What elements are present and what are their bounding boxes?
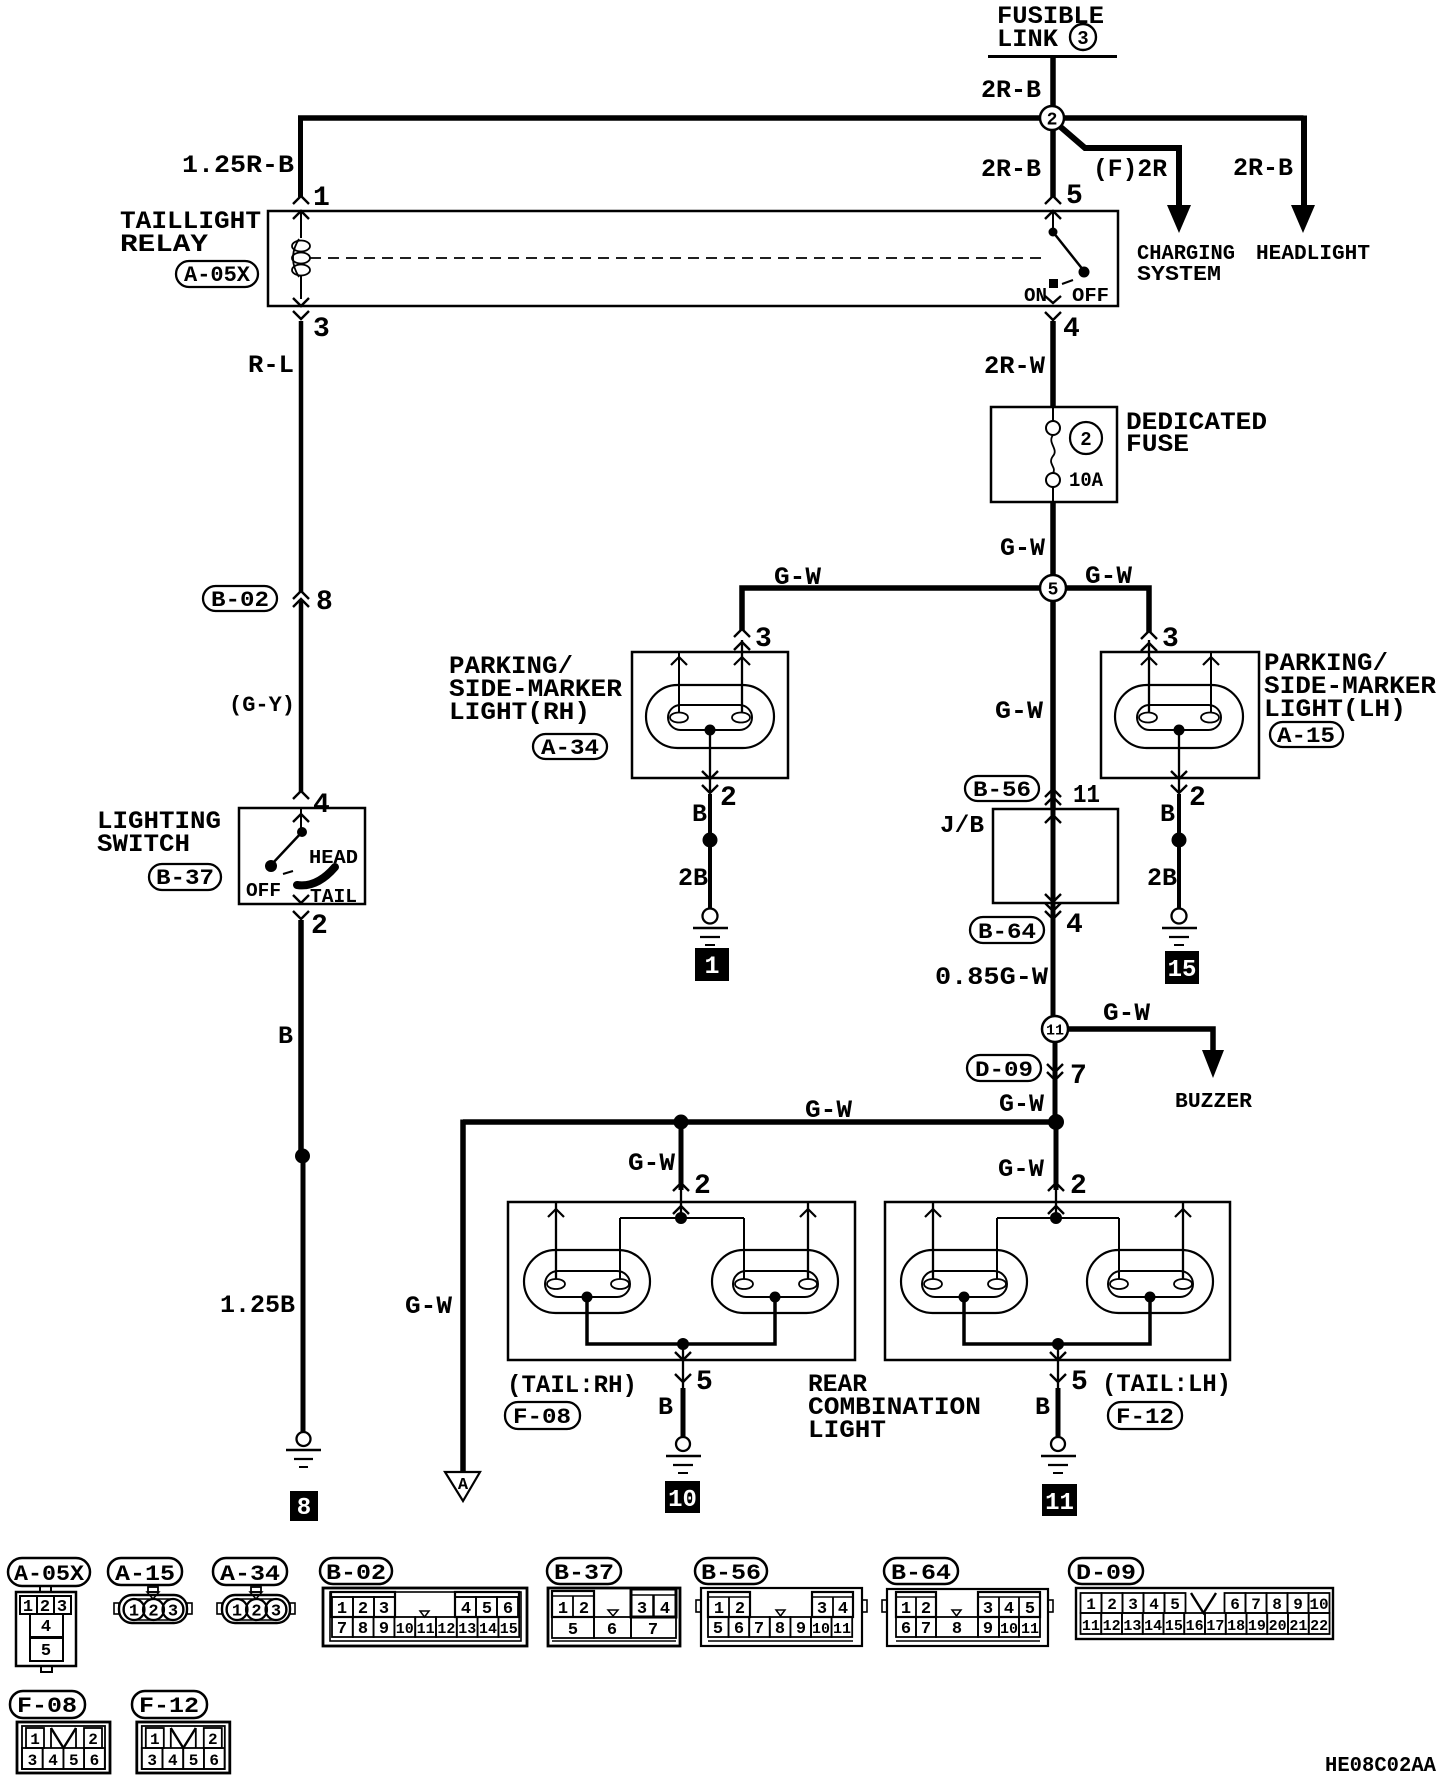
svg-text:4: 4	[1063, 314, 1080, 345]
rear LH bulb 2	[1087, 1250, 1213, 1313]
svg-text:OFF: OFF	[1072, 285, 1109, 307]
wire G-W fuse to node 5	[1050, 502, 1056, 576]
rear RH pin 2 chevrons	[673, 1183, 689, 1191]
svg-text:2B: 2B	[678, 864, 708, 893]
svg-text:6: 6	[1230, 1596, 1240, 1614]
svg-text:2: 2	[251, 1603, 261, 1622]
svg-text:FUSE: FUSE	[1126, 430, 1189, 459]
wire node2 to relay pin 5	[1050, 130, 1056, 197]
lighting switch position text	[246, 847, 358, 908]
ground (LH parking)	[1172, 909, 1187, 924]
pin 4 chevrons (lighting switch)	[293, 791, 309, 799]
wire relay pin3 down	[299, 321, 304, 592]
svg-text:5: 5	[189, 1752, 199, 1770]
svg-text:6: 6	[90, 1752, 100, 1770]
svg-text:3: 3	[28, 1752, 38, 1770]
svg-text:CHARGING: CHARGING	[1137, 243, 1235, 266]
svg-text:D-09: D-09	[975, 1058, 1033, 1083]
connector tag A-34	[533, 734, 607, 759]
relay switch lead	[1052, 211, 1054, 229]
fusible link label	[997, 2, 1104, 54]
junction dot (LH parking ground)	[1172, 833, 1187, 848]
svg-text:2: 2	[1047, 111, 1058, 131]
RH parking pin 2 lead	[709, 735, 711, 792]
connector pinout F-08	[10, 1691, 110, 1773]
svg-text:3: 3	[1077, 28, 1088, 50]
svg-text:11: 11	[833, 1621, 851, 1638]
svg-text:A-15: A-15	[1277, 724, 1335, 749]
svg-text:G-W: G-W	[1103, 999, 1150, 1028]
wire (G-Y) segment	[299, 601, 304, 792]
svg-text:A-34: A-34	[220, 1562, 280, 1587]
ground (rear RH)	[676, 1437, 690, 1451]
pin 1 connector chevrons	[293, 196, 309, 204]
svg-text:3: 3	[271, 1603, 281, 1622]
svg-text:9: 9	[983, 1620, 993, 1639]
svg-text:2: 2	[1070, 1171, 1087, 1202]
bulb LH filament leads	[1148, 640, 1150, 712]
relay coil	[292, 241, 310, 252]
svg-text:1: 1	[150, 1731, 160, 1749]
svg-text:B: B	[1035, 1393, 1050, 1422]
svg-text:5: 5	[696, 1367, 713, 1398]
rear RH bulb 2	[712, 1250, 838, 1313]
svg-text:10: 10	[396, 1621, 414, 1638]
svg-text:LINK: LINK	[997, 25, 1058, 54]
junction dot rear RH tap	[674, 1115, 689, 1130]
svg-text:2R-W: 2R-W	[984, 352, 1045, 381]
svg-text:4: 4	[1066, 910, 1083, 941]
connector tag B-64 (inline)	[970, 917, 1044, 943]
svg-text:B: B	[1160, 800, 1175, 829]
rear LH internal wiring	[997, 1217, 1119, 1219]
connector pinout A-15	[108, 1558, 192, 1623]
rear RH bulb 2 outer lead	[807, 1202, 809, 1279]
svg-text:0.85G-W: 0.85G-W	[935, 963, 1048, 992]
svg-text:11: 11	[1082, 1618, 1100, 1635]
wire 0.85G-W	[1051, 920, 1056, 1017]
parking/side-marker light RH box	[632, 652, 788, 778]
node 5 junction	[1040, 575, 1066, 601]
svg-text:11: 11	[1046, 1023, 1064, 1040]
wire drop to rear LH pin 2	[1054, 1122, 1059, 1190]
svg-text:7: 7	[921, 1620, 931, 1639]
connector tag A-15	[1270, 722, 1343, 747]
rear RH ground bus	[587, 1302, 683, 1344]
svg-text:(TAIL:RH): (TAIL:RH)	[507, 1371, 637, 1400]
svg-text:3: 3	[1162, 624, 1179, 655]
wire main horizontal bus	[298, 115, 1304, 121]
wire top bus down to relay pin 1	[298, 116, 303, 198]
svg-text:12: 12	[1103, 1618, 1121, 1635]
connector pinout B-56 (bottom row)	[695, 1558, 867, 1646]
rear RH labels	[507, 1370, 981, 1445]
svg-text:7: 7	[1251, 1596, 1261, 1614]
svg-text:B-02: B-02	[211, 588, 269, 613]
wire charging system branch	[1056, 123, 1179, 206]
connector tag B-02 (inline)	[203, 586, 277, 611]
svg-text:G-W: G-W	[628, 1149, 675, 1178]
svg-text:16: 16	[1186, 1618, 1204, 1635]
svg-text:1.25R-B: 1.25R-B	[182, 151, 294, 180]
svg-text:10: 10	[812, 1621, 830, 1638]
svg-text:RELAY: RELAY	[120, 230, 208, 259]
svg-text:TAIL: TAIL	[310, 886, 357, 908]
relay switch contact	[1049, 228, 1058, 237]
rear LH ground bus	[964, 1302, 1058, 1344]
RH parking pin 3 chevrons	[734, 629, 750, 637]
ground (rear LH)	[1051, 1437, 1065, 1451]
wire rear feed horizontal	[463, 1119, 1056, 1125]
svg-text:2R-B: 2R-B	[981, 155, 1041, 184]
svg-text:B-64: B-64	[891, 1561, 951, 1586]
grid ref box 10	[665, 1481, 700, 1513]
connector pinout B-02	[320, 1558, 527, 1646]
svg-text:(F)2R: (F)2R	[1093, 155, 1167, 184]
svg-text:5: 5	[568, 1621, 578, 1640]
wire to sheet arrow A	[460, 1120, 466, 1473]
rear RH bulb 1	[524, 1250, 650, 1313]
wire B rear RH	[681, 1388, 686, 1437]
connector pinout A-05X	[8, 1558, 90, 1672]
svg-text:9: 9	[379, 1620, 389, 1639]
svg-text:G-W: G-W	[999, 1090, 1044, 1119]
J/B pass-through chevrons	[1045, 815, 1061, 823]
node 2 junction	[1040, 106, 1064, 130]
svg-text:5: 5	[713, 1620, 723, 1639]
svg-text:1: 1	[704, 952, 719, 981]
svg-text:2: 2	[694, 1171, 711, 1202]
svg-text:2R-B: 2R-B	[981, 76, 1041, 105]
connector tag B-56 (inline)	[965, 776, 1039, 801]
svg-text:22: 22	[1310, 1618, 1328, 1635]
grid ref box 8	[290, 1491, 318, 1521]
svg-text:5: 5	[1071, 1367, 1088, 1398]
rear LH entry lead	[1055, 1190, 1057, 1218]
sheet link arrow A	[445, 1472, 480, 1501]
svg-text:6: 6	[901, 1620, 911, 1639]
taillight relay box	[268, 211, 1118, 306]
rear LH pin 2 chevrons	[1048, 1183, 1064, 1191]
junction dot main G-W	[1048, 1114, 1064, 1130]
B-02 crossing chevrons	[293, 591, 309, 599]
svg-text:11: 11	[417, 1621, 435, 1638]
B-64 crossing chevrons	[1045, 903, 1061, 911]
svg-text:8: 8	[1272, 1596, 1282, 1614]
bulb RH parking	[646, 685, 774, 748]
svg-text:2B: 2B	[1147, 864, 1177, 893]
rear RH bulb 1 outer lead	[555, 1202, 557, 1279]
bulb LH parking	[1115, 685, 1243, 748]
svg-text:13: 13	[1123, 1618, 1141, 1635]
svg-text:5: 5	[1048, 581, 1059, 601]
svg-text:14: 14	[479, 1621, 497, 1638]
rear LH pin 5 chevrons	[1050, 1352, 1066, 1360]
relay coil lead	[300, 211, 302, 238]
svg-text:15: 15	[1165, 1618, 1183, 1635]
svg-text:A-34: A-34	[541, 736, 599, 761]
svg-text:(G-Y): (G-Y)	[229, 693, 295, 718]
svg-text:3: 3	[168, 1603, 178, 1622]
svg-text:ON: ON	[1024, 285, 1047, 307]
rear LH bulb 1	[901, 1250, 1027, 1313]
rear RH internal wiring	[620, 1217, 744, 1219]
svg-text:(TAIL:LH): (TAIL:LH)	[1102, 1370, 1231, 1399]
taillight relay label	[120, 207, 261, 259]
B-56 crossing chevrons	[1045, 789, 1061, 797]
parking/side-marker light LH box	[1101, 652, 1259, 778]
grid ref box 11	[1042, 1484, 1077, 1516]
svg-text:14: 14	[1144, 1618, 1162, 1635]
svg-text:B-02: B-02	[326, 1561, 386, 1586]
svg-text:10A: 10A	[1069, 470, 1103, 493]
svg-text:8: 8	[316, 587, 333, 618]
svg-text:2R-B: 2R-B	[1233, 154, 1293, 183]
svg-text:G-W: G-W	[805, 1096, 852, 1125]
D-09 crossing chevrons	[1047, 1064, 1063, 1072]
LH parking pin 2 lead	[1178, 735, 1180, 792]
svg-text:1: 1	[232, 1603, 242, 1622]
svg-text:12: 12	[437, 1621, 455, 1638]
svg-text:10: 10	[1000, 1621, 1018, 1638]
svg-text:LIGHT: LIGHT	[808, 1416, 886, 1445]
svg-text:A-05X: A-05X	[184, 263, 251, 288]
lighting switch box	[239, 808, 365, 904]
svg-text:R-L: R-L	[248, 351, 294, 380]
svg-text:4: 4	[41, 1618, 51, 1637]
connector pinout A-34	[213, 1558, 295, 1623]
dedicated fuse box	[991, 407, 1117, 502]
svg-text:4: 4	[1149, 1596, 1159, 1614]
svg-text:2: 2	[1107, 1596, 1117, 1614]
svg-text:1: 1	[30, 1731, 40, 1749]
svg-text:SYSTEM: SYSTEM	[1137, 264, 1221, 287]
svg-text:SWITCH: SWITCH	[97, 830, 190, 859]
svg-text:B: B	[278, 1022, 293, 1051]
connector pinout F-12	[132, 1691, 230, 1773]
parking light LH text	[1264, 649, 1436, 724]
svg-text:5: 5	[1170, 1596, 1180, 1614]
charging system text	[1137, 243, 1235, 287]
rear LH bulb 1 outer lead	[932, 1202, 934, 1279]
svg-text:18: 18	[1227, 1618, 1245, 1635]
svg-text:G-W: G-W	[405, 1292, 452, 1321]
svg-text:A-05X: A-05X	[14, 1562, 85, 1587]
svg-text:B: B	[692, 800, 707, 829]
svg-text:F-08: F-08	[513, 1405, 571, 1430]
connector pinout B-64	[882, 1558, 1053, 1646]
svg-text:10: 10	[1309, 1596, 1328, 1614]
junction dot left	[295, 1149, 310, 1164]
wire node5 right branch to LH parking light	[1066, 588, 1149, 632]
svg-text:8: 8	[952, 1620, 962, 1639]
connector tag F-08	[505, 1402, 580, 1429]
svg-text:1: 1	[313, 183, 330, 214]
connector pinout D-09	[1069, 1558, 1333, 1639]
J/B box	[993, 809, 1118, 903]
svg-text:9: 9	[1293, 1596, 1303, 1614]
svg-text:1: 1	[129, 1603, 139, 1622]
relay coil lower lead	[300, 276, 302, 299]
svg-text:B-64: B-64	[978, 920, 1036, 945]
bulb RH filament leads	[678, 652, 680, 712]
svg-text:D-09: D-09	[1076, 1561, 1136, 1586]
svg-text:5: 5	[69, 1752, 79, 1770]
fuse number 2 circle	[1070, 422, 1102, 454]
relay ON OFF text	[1024, 285, 1109, 307]
svg-text:3: 3	[147, 1752, 157, 1770]
svg-text:LIGHT(LH): LIGHT(LH)	[1264, 695, 1406, 724]
rear RH pin 5 chevrons	[675, 1352, 691, 1360]
svg-text:A: A	[458, 1476, 469, 1495]
wire B (RH parking)	[708, 794, 712, 909]
wire 1.25B segment	[301, 1156, 306, 1432]
relay dashed link	[310, 257, 1046, 259]
svg-text:15: 15	[500, 1621, 518, 1638]
svg-text:20: 20	[1269, 1618, 1287, 1635]
connector tag D-09 (inline)	[967, 1055, 1041, 1081]
svg-text:G-W: G-W	[995, 697, 1043, 726]
svg-text:2: 2	[311, 911, 328, 942]
lighting switch arm	[272, 832, 302, 864]
svg-text:7: 7	[1070, 1061, 1087, 1092]
svg-text:11: 11	[1021, 1621, 1039, 1638]
svg-text:2: 2	[720, 783, 737, 814]
rear combination light RH box	[508, 1202, 855, 1360]
svg-text:21: 21	[1289, 1618, 1307, 1635]
wire fusible link to node 2	[1050, 58, 1056, 110]
svg-text:F-12: F-12	[139, 1694, 199, 1719]
svg-text:HE08C02AA: HE08C02AA	[1325, 1755, 1436, 1778]
wire node11 down	[1053, 1042, 1058, 1122]
svg-text:2: 2	[1189, 783, 1206, 814]
svg-text:B-56: B-56	[701, 1561, 761, 1586]
svg-text:2: 2	[148, 1603, 158, 1622]
wire buzzer branch	[1067, 1029, 1213, 1051]
svg-text:2: 2	[208, 1731, 218, 1749]
svg-text:3: 3	[755, 624, 772, 655]
svg-text:10: 10	[668, 1487, 697, 1514]
svg-text:G-W: G-W	[1085, 562, 1132, 591]
svg-text:G-W: G-W	[774, 563, 821, 592]
svg-text:4: 4	[168, 1752, 178, 1770]
svg-text:8: 8	[775, 1620, 785, 1639]
fusible link number 3 circle	[1070, 24, 1096, 50]
svg-text:6: 6	[607, 1621, 617, 1640]
parking light RH text	[449, 652, 622, 727]
rear RH entry lead	[680, 1190, 682, 1218]
svg-text:B-56: B-56	[973, 778, 1031, 803]
wire B (LH parking)	[1177, 794, 1181, 909]
svg-text:13: 13	[458, 1621, 476, 1638]
dedicated fuse text	[1126, 408, 1267, 459]
svg-text:7: 7	[648, 1621, 658, 1640]
wire G-W node5 to B-56	[1050, 601, 1056, 809]
svg-text:1: 1	[1086, 1596, 1096, 1614]
wire node5 left branch to RH parking light	[742, 588, 1042, 630]
lighting switch wiper arc	[297, 867, 335, 885]
rear combination light LH box	[885, 1202, 1230, 1360]
wire B segment	[298, 920, 304, 1156]
svg-text:G-W: G-W	[998, 1155, 1044, 1184]
svg-text:19: 19	[1248, 1618, 1266, 1635]
svg-text:2: 2	[88, 1731, 98, 1749]
svg-text:15: 15	[1168, 957, 1197, 984]
wire 2R-W relay pin4 to fuse	[1050, 321, 1056, 407]
pin 2 chevrons	[293, 895, 309, 903]
pin 5 connector chevrons	[1045, 196, 1061, 204]
lighting switch label	[97, 807, 221, 859]
svg-text:7: 7	[754, 1620, 764, 1639]
svg-text:F-12: F-12	[1116, 1405, 1174, 1430]
svg-text:LIGHT(RH): LIGHT(RH)	[449, 698, 590, 727]
lighting switch common lead	[300, 808, 302, 828]
ground (RH parking)	[703, 909, 718, 924]
svg-text:HEADLIGHT: HEADLIGHT	[1256, 243, 1370, 266]
svg-text:6: 6	[734, 1620, 744, 1639]
svg-text:7: 7	[337, 1620, 347, 1639]
pin 3 chevrons	[293, 298, 309, 306]
svg-text:G-W: G-W	[1000, 534, 1045, 563]
pin 4 chevrons	[1045, 296, 1061, 303]
svg-text:6: 6	[209, 1752, 219, 1770]
svg-text:3: 3	[1128, 1596, 1138, 1614]
svg-text:8: 8	[358, 1620, 368, 1639]
svg-text:1.25B: 1.25B	[220, 1291, 295, 1320]
fuse element	[1052, 407, 1054, 421]
grid ref box 1	[695, 948, 729, 981]
grid ref box 15	[1165, 951, 1199, 984]
wire drop to rear RH pin 2	[679, 1122, 684, 1190]
connector tag A-05X	[176, 261, 258, 287]
connector pinout B-37	[547, 1558, 680, 1646]
svg-text:11: 11	[1073, 780, 1100, 810]
svg-text:5: 5	[1066, 181, 1083, 212]
svg-text:B-37: B-37	[156, 866, 214, 891]
svg-text:8: 8	[297, 1495, 311, 1522]
svg-text:4: 4	[313, 790, 330, 821]
svg-text:B: B	[658, 1393, 673, 1422]
svg-text:17: 17	[1206, 1618, 1224, 1635]
svg-text:J/B: J/B	[940, 813, 984, 840]
svg-text:OFF: OFF	[246, 880, 281, 902]
svg-text:BUZZER: BUZZER	[1175, 1091, 1252, 1114]
svg-text:A-15: A-15	[115, 1562, 175, 1587]
svg-text:4: 4	[48, 1752, 58, 1770]
wire through J/B	[1051, 805, 1056, 920]
svg-text:11: 11	[1045, 1490, 1074, 1517]
node 11 junction	[1042, 1016, 1068, 1042]
svg-text:5: 5	[41, 1642, 51, 1661]
rear LH bulb 2 outer lead	[1182, 1202, 1184, 1279]
svg-text:3: 3	[313, 314, 330, 345]
fusible link bus bar	[988, 55, 1117, 58]
svg-text:2: 2	[1080, 429, 1091, 451]
wire B rear LH	[1056, 1388, 1061, 1437]
svg-text:9: 9	[796, 1620, 806, 1639]
svg-text:F-08: F-08	[17, 1694, 77, 1719]
svg-text:B-37: B-37	[554, 1561, 614, 1586]
LH parking pin 3 chevrons	[1141, 631, 1157, 639]
wire headlight branch	[1301, 116, 1307, 207]
connector tag F-12	[1108, 1402, 1182, 1429]
junction dot (RH parking ground)	[703, 833, 718, 848]
connector tag B-37	[149, 864, 221, 890]
ground (lighting switch)	[297, 1432, 311, 1446]
